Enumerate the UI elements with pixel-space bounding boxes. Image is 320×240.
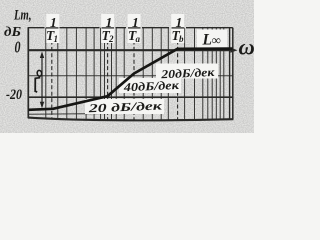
0 dB axis line: [28, 49, 232, 51]
L0 dimension line with two arrowheads: [40, 52, 44, 109]
svg-text:b: b: [179, 34, 184, 44]
svg-text:ω: ω: [239, 34, 255, 59]
left frame axis: [27, 27, 29, 118]
horizontal -20 dB grid line: [28, 96, 233, 98]
level label L0 rotated 90 deg: [35, 70, 42, 92]
dashed break-frequency line 1/Tb: [177, 28, 179, 120]
fraction label 1/Tb: [171, 14, 184, 44]
svg-text:a: a: [136, 34, 141, 44]
svg-text:20 дБ/дек: 20 дБ/дек: [87, 98, 163, 115]
horizontal -30 dB partial grid line: [28, 113, 150, 114]
bottom frame line: [28, 118, 233, 121]
svg-text:∞: ∞: [212, 32, 221, 47]
svg-text:Lm,: Lm,: [13, 8, 31, 24]
asymptotic LAFC curve: flat, +20, +40, +20, flat at L-infinity: [29, 49, 233, 110]
white backing for slope label 20dB/dec upper: [156, 64, 218, 79]
white backing for slope label 20dB/dec lower: [85, 99, 164, 114]
svg-text:2: 2: [108, 34, 114, 44]
white backing for L-infinity label: [197, 30, 227, 49]
svg-text:L: L: [202, 32, 212, 49]
dashed break-frequency line 1/T1: [51, 28, 53, 119]
omega axis arrowhead: [231, 48, 238, 53]
white backing for slope label 40dB/dec: [119, 78, 181, 93]
svg-text:-20: -20: [6, 87, 22, 103]
svg-text:0: 0: [15, 38, 21, 57]
fraction label 1/Ta: [128, 14, 141, 44]
top frame line with gaps at fraction labels: [28, 27, 233, 29]
right frame double line: [229, 28, 231, 120]
horizontal -10 dB grid line: [28, 75, 233, 77]
dashed break-frequency line 1/T2: [107, 28, 109, 120]
fraction label 1/T2: [101, 14, 114, 44]
grid vertical thin lines: [46, 28, 224, 121]
svg-text:1: 1: [54, 34, 59, 44]
dashed break-frequency line 1/Ta: [133, 28, 135, 120]
svg-text:20дБ/дек: 20дБ/дек: [160, 65, 216, 81]
fraction label 1/T1: [46, 14, 59, 44]
